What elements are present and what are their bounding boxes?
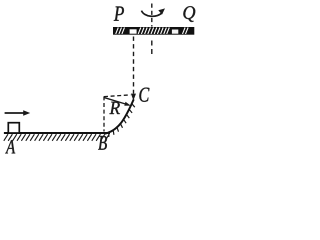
arrowhead pointing down at C — [131, 94, 136, 101]
label Q — [183, 6, 195, 22]
block 2 on rod (white) — [172, 30, 178, 34]
rod hatch slashes (white) — [116, 28, 188, 34]
block 1 on rod (white) — [130, 29, 137, 33]
ramp arc B to C — [105, 99, 134, 133]
dashed radius horizontal from center to C — [104, 95, 131, 97]
dashed drop line from rod to C — [133, 37, 135, 94]
velocity arrow head — [23, 110, 30, 116]
label A — [5, 140, 15, 153]
rod PQ (black bar) — [113, 27, 194, 35]
arc outside hatching — [109, 104, 135, 137]
rotation axis dashed line (below rod) — [151, 41, 153, 56]
dashed radius vertical from center to B — [103, 96, 105, 131]
label B — [98, 136, 107, 150]
label C — [139, 88, 149, 102]
label R — [109, 102, 120, 114]
radius arrow R line — [104, 97, 126, 104]
rotation arrow arc — [142, 11, 163, 17]
block at A — [8, 123, 19, 133]
rotation arrow head — [158, 8, 165, 14]
label P — [114, 7, 124, 21]
velocity arrow above block — [5, 112, 25, 114]
ground hatching — [4, 134, 109, 141]
ground line — [4, 132, 110, 134]
radius arrow head — [124, 102, 131, 106]
rotation axis dashed line (above rod) — [151, 4, 153, 27]
